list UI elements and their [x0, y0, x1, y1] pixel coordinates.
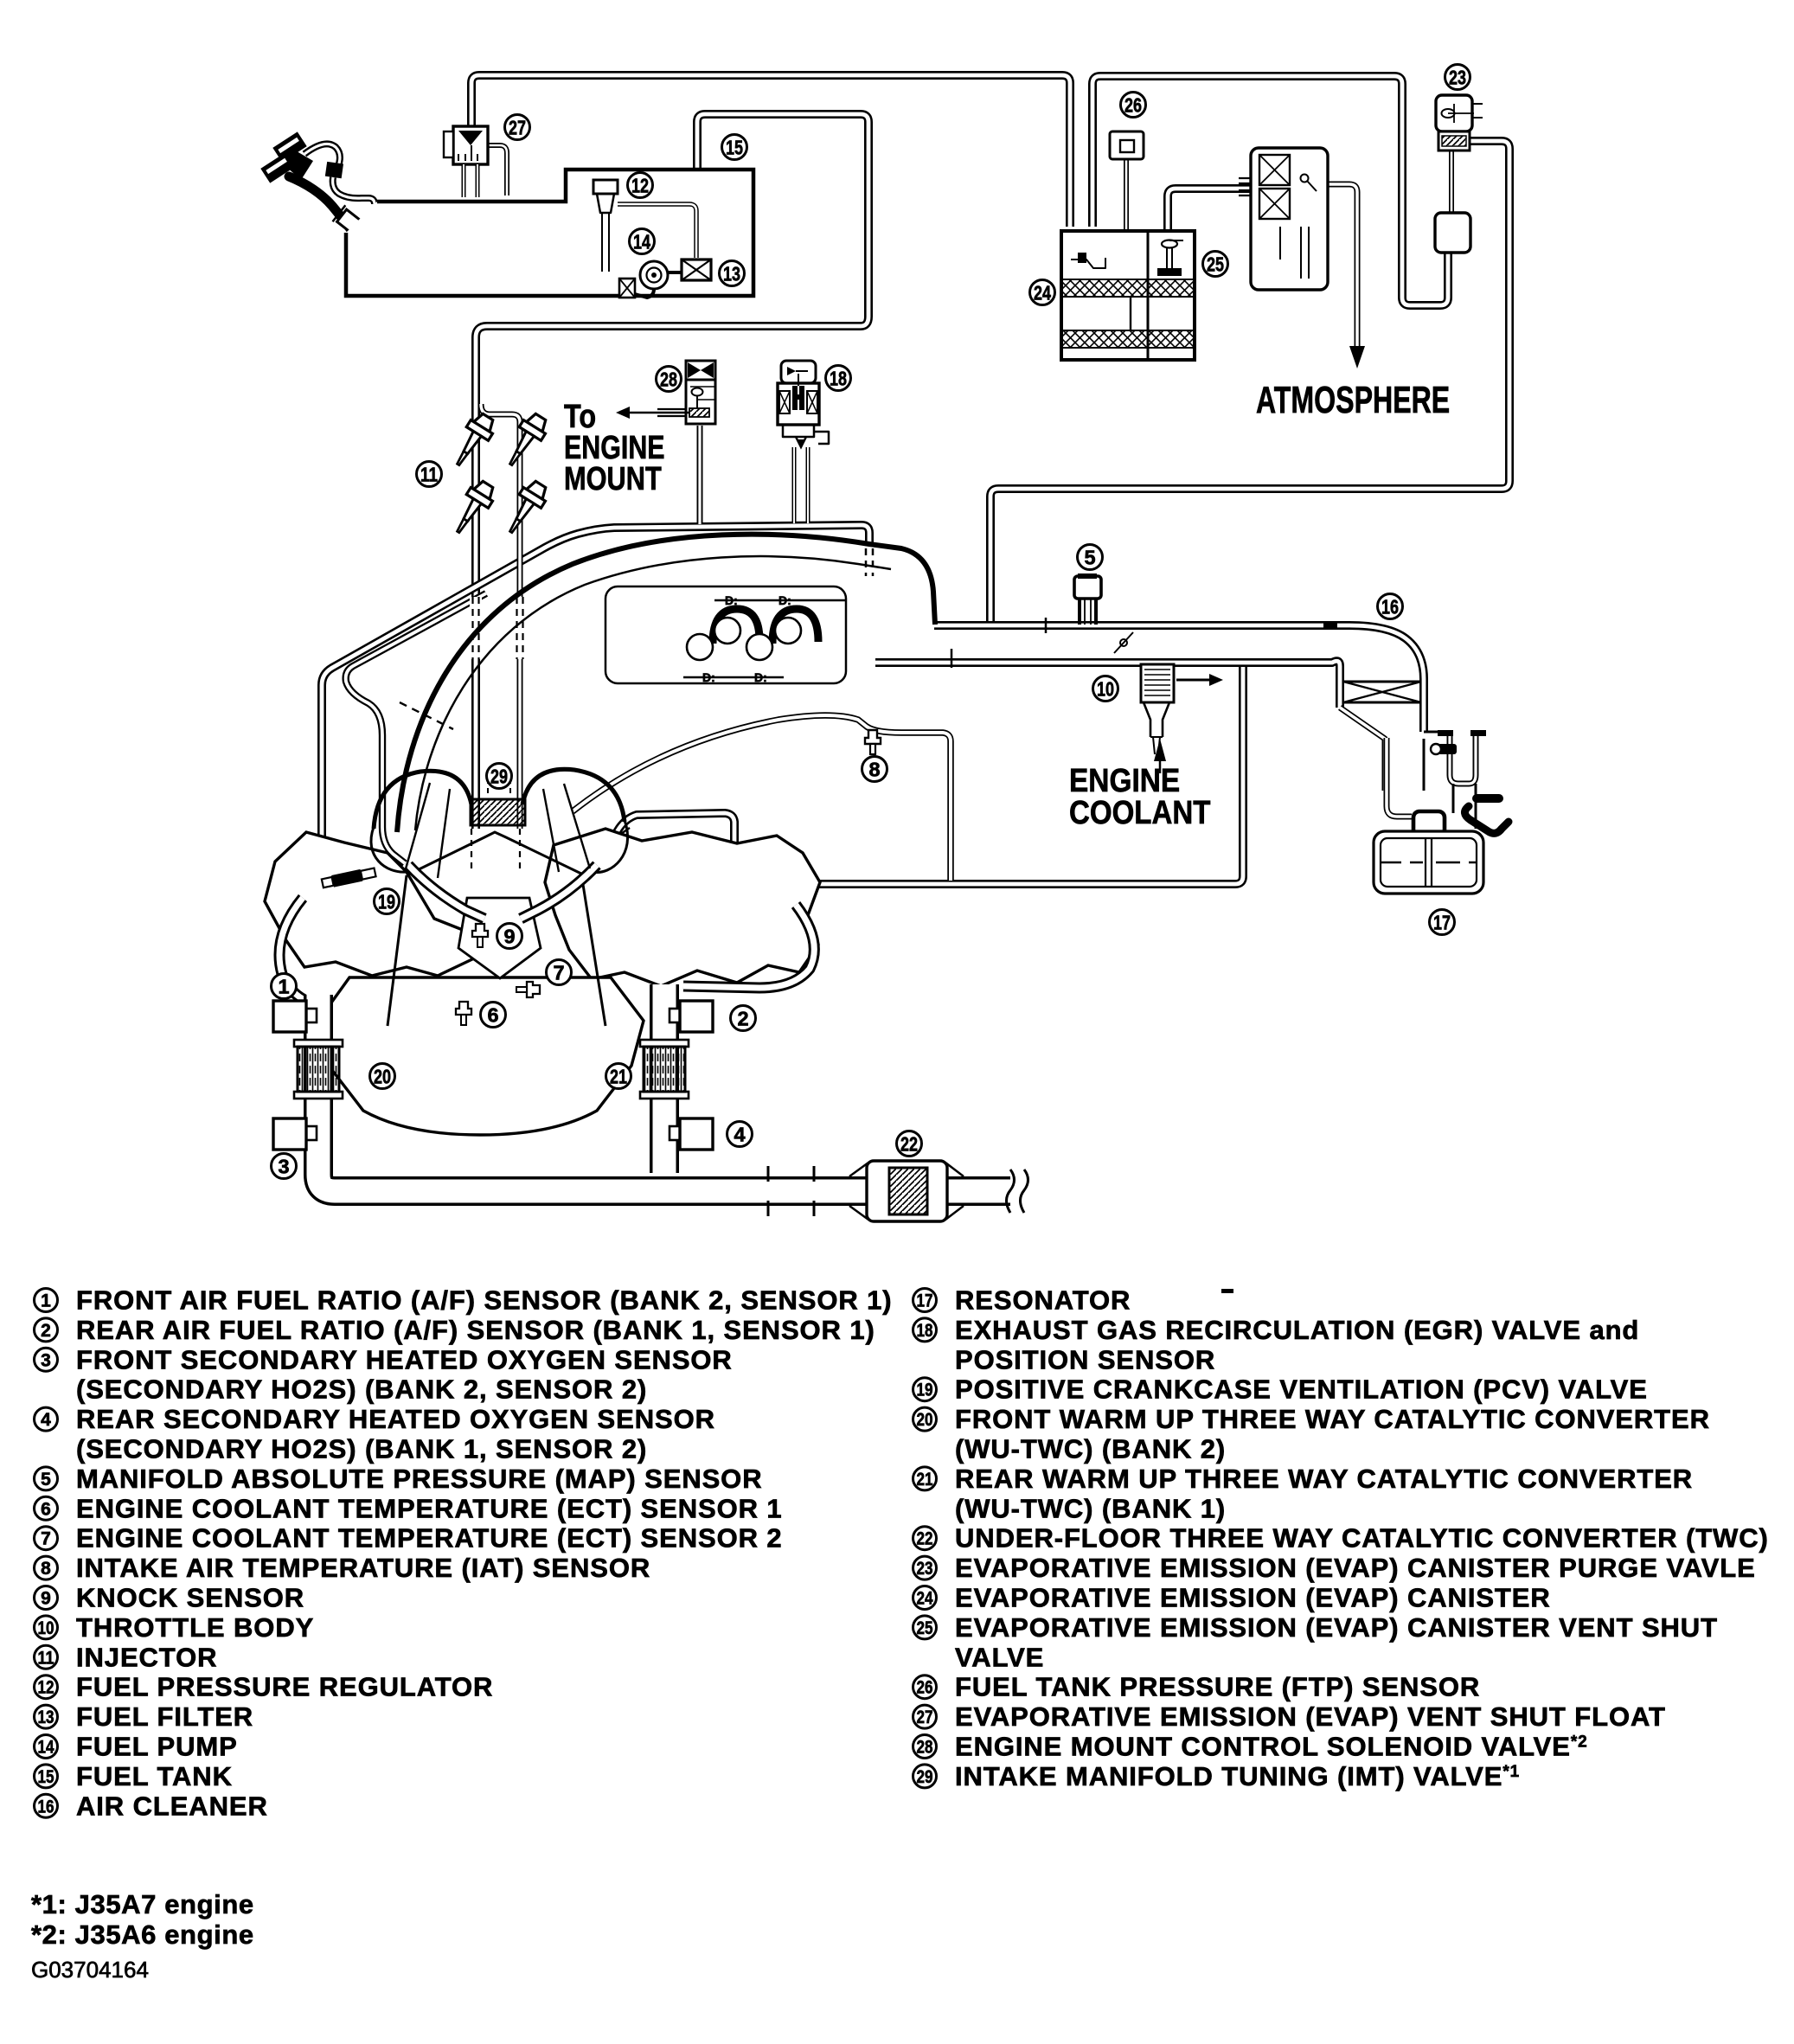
svg-text:7: 7: [41, 1529, 51, 1549]
legend circle 5: [35, 1467, 58, 1490]
svg-text:INJECTOR: INJECTOR: [76, 1642, 217, 1672]
legend circle 8: [35, 1556, 58, 1579]
exhaust left downpipe and main pipe: [318, 995, 1010, 1191]
hose: PCV valve to manifold: [346, 593, 486, 863]
under floor TWC 22: [849, 1163, 964, 1220]
legend circle 9: [35, 1586, 58, 1610]
air cleaner funnel left wall: [1340, 708, 1385, 791]
svg-text:11: 11: [420, 463, 438, 485]
callout 17: [1430, 910, 1455, 935]
svg-text:FRONT AIR FUEL RATIO (A/F) SEN: FRONT AIR FUEL RATIO (A/F) SENSOR (BANK …: [76, 1285, 893, 1316]
svg-text:D:: D:: [725, 593, 738, 607]
svg-text:24: 24: [917, 1589, 933, 1609]
svg-text:POSITIVE CRANKCASE VENTILATION: POSITIVE CRANKCASE VENTILATION (PCV) VAL…: [955, 1374, 1648, 1405]
runner mouth circles: [687, 634, 713, 660]
runner cluster outline: [605, 586, 846, 683]
callout 7: [547, 960, 572, 985]
svg-text:EVAPORATIVE EMISSION (EVAP) CA: EVAPORATIVE EMISSION (EVAP) CANISTER PUR…: [955, 1553, 1756, 1583]
svg-text:26: 26: [1124, 93, 1142, 116]
svg-text:D:: D:: [754, 670, 767, 684]
svg-text:16: 16: [1381, 595, 1399, 618]
IMT valve 29: [471, 799, 525, 825]
svg-text:EVAPORATIVE EMISSION (EVAP) CA: EVAPORATIVE EMISSION (EVAP) CANISTER VEN…: [955, 1612, 1718, 1643]
svg-text:MANIFOLD ABSOLUTE PRESSURE (MA: MANIFOLD ABSOLUTE PRESSURE (MAP) SENSOR: [76, 1464, 762, 1494]
svg-text:FUEL TANK: FUEL TANK: [76, 1761, 233, 1791]
resonator top port: [1413, 811, 1445, 836]
svg-text:*2: J35A6 engine: *2: J35A6 engine: [31, 1919, 254, 1950]
float valve right stub to tank: [476, 164, 480, 197]
callout 16: [1378, 594, 1403, 619]
callout 24: [1030, 280, 1055, 305]
svg-text:G03704164: G03704164: [31, 1957, 149, 1983]
svg-text:13: 13: [723, 262, 740, 285]
resonator 17 body: [1374, 831, 1483, 894]
legend circle 2: [35, 1318, 58, 1342]
EVAP canister 24: [1061, 231, 1195, 360]
secondary HO2S 3 box: [306, 1126, 317, 1140]
svg-text:14: 14: [38, 1738, 54, 1758]
svg-text:29: 29: [490, 765, 508, 787]
atmosphere arrowhead: [1349, 346, 1365, 368]
intake manifold plenum inner sweep: [415, 556, 891, 830]
svg-text:21: 21: [917, 1470, 933, 1490]
filter box left stubs upper: [1239, 178, 1251, 183]
svg-text:*1: J35A7 engine: *1: J35A7 engine: [31, 1889, 254, 1919]
svg-text:13: 13: [38, 1708, 54, 1727]
svg-text:D:: D:: [702, 670, 715, 684]
hose: EGR/PCV pipe loop left side: [322, 525, 869, 941]
svg-text:9: 9: [41, 1589, 51, 1609]
fuel pressure regulator 12: [593, 180, 618, 194]
svg-text:22: 22: [917, 1529, 933, 1549]
callout 13: [720, 261, 745, 286]
svg-text:ATMOSPHERE: ATMOSPHERE: [1256, 379, 1450, 421]
svg-text:5: 5: [1084, 546, 1095, 568]
svg-text:D:: D:: [778, 593, 791, 607]
callout 10: [1093, 676, 1118, 702]
callout 27: [505, 115, 530, 140]
intake manifold plenum outer sweep: [397, 535, 935, 832]
svg-text:28: 28: [660, 368, 677, 390]
filter box left stubs lower: [1239, 190, 1251, 195]
svg-text:2: 2: [41, 1321, 51, 1341]
callout 29: [487, 764, 512, 789]
svg-text:(SECONDARY HO2S) (BANK 1, SENS: (SECONDARY HO2S) (BANK 1, SENSOR 2): [76, 1434, 647, 1464]
air cleaner right ledge to resonator cup: [1424, 731, 1446, 734]
pump to filter link: [668, 271, 682, 274]
fuel tank 15: [346, 170, 753, 296]
warm up converter 20: [294, 1040, 343, 1047]
svg-text:19: 19: [917, 1381, 933, 1400]
svg-text:6: 6: [487, 1003, 498, 1026]
secondary HO2S 4 box: [670, 1126, 680, 1140]
resonator mounting hook: [1477, 794, 1499, 803]
EVAP vent shut float 27: [453, 126, 488, 164]
resonator body divider: [1425, 838, 1426, 887]
legend circle 10: [35, 1616, 58, 1639]
legend circle 18: [913, 1318, 937, 1342]
legend circle 15: [35, 1765, 58, 1788]
runner lines under plenum: [405, 783, 430, 872]
svg-text:20: 20: [917, 1410, 933, 1430]
svg-text:(WU-TWC) (BANK 2): (WU-TWC) (BANK 2): [955, 1434, 1226, 1464]
small nub on duct: [1323, 621, 1337, 629]
A/F sensor 1 box: [306, 1009, 317, 1022]
svg-text:THROTTLE BODY: THROTTLE BODY: [76, 1612, 314, 1643]
svg-text:27: 27: [917, 1708, 933, 1727]
callout 25: [1203, 252, 1228, 277]
stray mark: [1221, 1289, 1233, 1293]
resonator dashed midline: [1381, 862, 1477, 863]
hose clamp tick b: [625, 839, 639, 849]
throttle linkage: [1120, 639, 1127, 646]
callout 22: [897, 1131, 922, 1157]
callout 3: [272, 1154, 297, 1179]
svg-text:7: 7: [553, 961, 564, 984]
pigtail lower thick hose: [289, 176, 351, 230]
svg-text:25: 25: [1207, 253, 1224, 275]
label To: [564, 399, 596, 435]
svg-text:11: 11: [38, 1648, 54, 1668]
legend circle 27: [913, 1705, 937, 1728]
svg-text:(WU-TWC) (BANK 1): (WU-TWC) (BANK 1): [955, 1493, 1226, 1523]
legend circle 12: [35, 1676, 58, 1699]
legend circle 13: [35, 1705, 58, 1728]
callout 21: [606, 1064, 631, 1089]
callout 2: [731, 1006, 756, 1031]
intake runner tube right: [521, 865, 597, 919]
EGR valve right drop: [806, 447, 811, 523]
throttle body 10: [1141, 664, 1174, 702]
resonator cup side stub: [1438, 744, 1457, 754]
hose: canister 24 to vent filter box: [1168, 189, 1251, 229]
svg-text:POSITION SENSOR: POSITION SENSOR: [955, 1344, 1215, 1374]
svg-text:REAR WARM UP THREE WAY CATALYT: REAR WARM UP THREE WAY CATALYTIC CONVERT…: [955, 1464, 1693, 1494]
fuel hose regulator to filter: [618, 204, 696, 258]
callout 8: [862, 757, 887, 782]
callout 15: [722, 135, 747, 160]
fuel pump strainer box: [619, 279, 635, 298]
svg-text:1: 1: [41, 1291, 51, 1311]
svg-text:12: 12: [38, 1678, 54, 1698]
valve 28 drop line: [697, 426, 703, 524]
svg-text:KNOCK SENSOR: KNOCK SENSOR: [76, 1583, 304, 1613]
rails hidden behind plenum: dashed: [470, 597, 482, 659]
intake duct upper wall / air cleaner top: [934, 625, 1424, 732]
svg-text:MOUNT: MOUNT: [564, 461, 662, 497]
ECT sensor 1 glyph (6): [456, 1002, 471, 1025]
label COOLANT: [1069, 794, 1211, 831]
callout 1: [272, 974, 297, 999]
engine left valve cover (PCV area) 19: [265, 832, 474, 976]
label ENGINE (mount): [564, 430, 665, 466]
svg-text:5: 5: [41, 1470, 51, 1490]
hose: canister 24 to EVAP purge valve 23: [1092, 76, 1448, 305]
air cleaner 16 filter element: [1343, 681, 1421, 683]
svg-text:FUEL FILTER: FUEL FILTER: [76, 1701, 253, 1732]
engine coolant arrow: [1154, 739, 1166, 761]
exhaust pipe break squiggle: [1007, 1169, 1015, 1213]
svg-text:12: 12: [631, 174, 649, 196]
callout 18: [826, 366, 851, 391]
legend circle 21: [913, 1467, 937, 1490]
fuel filler pigtail connector A: [272, 131, 306, 162]
label ENGINE (coolant): [1069, 762, 1180, 798]
tick on duct: [1045, 618, 1048, 633]
hose: canister fresh-air line from EVAP vent shut float 27 to canister 24: [471, 75, 1070, 227]
canister float detail: [1071, 258, 1105, 268]
engine V interior: [407, 832, 581, 875]
svg-text:8: 8: [41, 1559, 51, 1579]
lower runner line: [683, 676, 784, 679]
valve 28 left port lines: [657, 409, 686, 416]
legend circle 4: [35, 1407, 58, 1431]
svg-text:FUEL PRESSURE REGULATOR: FUEL PRESSURE REGULATOR: [76, 1672, 493, 1702]
svg-text:14: 14: [633, 230, 650, 253]
legend circle 24: [913, 1586, 937, 1610]
svg-text:20: 20: [374, 1065, 391, 1087]
svg-text:FRONT WARM UP THREE WAY CATALY: FRONT WARM UP THREE WAY CATALYTIC CONVER…: [955, 1404, 1710, 1434]
legend circle 6: [35, 1496, 58, 1520]
svg-text:REAR AIR FUEL RATIO (A/F) SENS: REAR AIR FUEL RATIO (A/F) SENSOR (BANK 1…: [76, 1315, 875, 1345]
svg-text:23: 23: [1449, 66, 1466, 88]
callout 26: [1121, 93, 1146, 118]
svg-text:10: 10: [1097, 677, 1114, 700]
svg-text:ENGINE MOUNT CONTROL SOLENOID: ENGINE MOUNT CONTROL SOLENOID VALVE*2: [955, 1732, 1588, 1762]
svg-text:INTAKE MANIFOLD TUNING (IMT) V: INTAKE MANIFOLD TUNING (IMT) VALVE*1: [955, 1761, 1520, 1791]
ECT sensor 2 glyph (7): [516, 982, 540, 997]
svg-text:(SECONDARY HO2S) (BANK 2, SENS: (SECONDARY HO2S) (BANK 2, SENSOR 2): [76, 1374, 647, 1405]
hidden hose dashes behind plenum: [400, 702, 453, 729]
svg-text:ENGINE COOLANT TEMPERATURE (EC: ENGINE COOLANT TEMPERATURE (ECT) SENSOR …: [76, 1523, 783, 1554]
legend circle 3: [35, 1348, 58, 1371]
svg-text:15: 15: [38, 1767, 54, 1787]
legend circle 14: [35, 1735, 58, 1759]
legend circle 25: [913, 1616, 937, 1639]
svg-text:4: 4: [734, 1123, 745, 1145]
svg-text:18: 18: [917, 1321, 933, 1341]
legend circle 19: [913, 1378, 937, 1401]
svg-text:2: 2: [737, 1007, 748, 1029]
svg-text:26: 26: [917, 1678, 933, 1698]
fuel filter 13: [682, 260, 711, 280]
callout 6: [481, 1003, 506, 1028]
knock sensor 9: [472, 924, 488, 947]
svg-text:INTAKE AIR TEMPERATURE (IAT) S: INTAKE AIR TEMPERATURE (IAT) SENSOR: [76, 1553, 650, 1583]
hose: intake air duct lower loop under engine to air cleaner: [609, 666, 1243, 884]
EVAP canister purge valve 23: [1436, 95, 1472, 131]
tube: FTP sensor 26 to canister: [1124, 159, 1129, 229]
legend circle 29: [913, 1765, 937, 1788]
engine block: [318, 977, 644, 1135]
legend circle 22: [913, 1527, 937, 1550]
hose: purge valve 23 to intake manifold: [990, 141, 1509, 625]
injector glyphs 11: [447, 410, 552, 539]
engine right valve cover: [545, 829, 820, 986]
svg-text:RESONATOR: RESONATOR: [955, 1285, 1131, 1316]
stub: float valve 27 right port to tank: [489, 145, 507, 195]
svg-text:9: 9: [503, 925, 515, 947]
resonator 17 inlet cup: [1450, 735, 1476, 784]
svg-text:22: 22: [900, 1132, 918, 1155]
svg-text:EVAPORATIVE EMISSION (EVAP) VE: EVAPORATIVE EMISSION (EVAP) VENT SHUT FL…: [955, 1701, 1666, 1732]
upper runner line: [714, 599, 846, 602]
callout 20: [370, 1064, 395, 1089]
warm up converter 21: [640, 1040, 689, 1047]
legend circle 20: [913, 1407, 937, 1431]
fuel filler neck fitting: [333, 205, 385, 253]
svg-text:AIR CLEANER: AIR CLEANER: [76, 1791, 268, 1821]
svg-text:UNDER-FLOOR THREE WAY CATALYTI: UNDER-FLOOR THREE WAY CATALYTIC CONVERTE…: [955, 1523, 1769, 1554]
EGR valve left drop: [792, 447, 797, 523]
intake runner tube left: [408, 865, 484, 919]
svg-text:24: 24: [1034, 281, 1051, 304]
legend circle 11: [35, 1645, 58, 1669]
canister vent shut valve 25: [1162, 240, 1177, 248]
fuel line right rail branch: [481, 404, 520, 829]
EVAP vent filter box: [1251, 148, 1328, 290]
callout 9: [497, 924, 522, 949]
svg-text:25: 25: [917, 1618, 933, 1638]
callout 14: [630, 229, 655, 254]
IAT sensor 8: [865, 730, 881, 754]
legend circle 28: [913, 1735, 937, 1759]
resonator tower walls to body: [1475, 784, 1477, 829]
arrow line to engine mount: [630, 412, 690, 414]
hose clamp tick a: [616, 828, 630, 837]
exhaust right downpipe: [650, 984, 679, 1173]
intake duct lower wall: [875, 661, 1340, 708]
MAP sensor 5: [1078, 597, 1081, 625]
svg-text:EVAPORATIVE EMISSION (EVAP) CA: EVAPORATIVE EMISSION (EVAP) CANISTER: [955, 1583, 1551, 1613]
svg-text:17: 17: [1433, 911, 1451, 933]
svg-text:REAR SECONDARY HEATED OXYGEN S: REAR SECONDARY HEATED OXYGEN SENSOR: [76, 1404, 715, 1434]
svg-text:27: 27: [509, 116, 526, 138]
svg-text:23: 23: [917, 1559, 933, 1579]
svg-text:16: 16: [38, 1797, 54, 1817]
callout 19: [375, 889, 400, 914]
label ATMOSPHERE: [1256, 379, 1450, 421]
legend circle 26: [913, 1676, 937, 1699]
hose: vent filter to atmosphere: [1329, 184, 1357, 348]
pigtail upper thin hose: [304, 144, 340, 166]
svg-text:28: 28: [917, 1738, 933, 1758]
left exhaust manifold runner: [279, 898, 308, 1002]
svg-text:15: 15: [726, 136, 743, 158]
legend circle 7: [35, 1527, 58, 1550]
float valve left stub to tank: [462, 164, 466, 197]
air cleaner lower chamber left wall: [1387, 738, 1412, 817]
plenum bottom lobes: [374, 771, 471, 829]
FTP sensor 26: [1110, 131, 1144, 159]
throttle bypass arrow line: [1176, 679, 1209, 682]
svg-text:3: 3: [41, 1350, 51, 1370]
exhaust flange ticks: [767, 1166, 770, 1216]
svg-text:10: 10: [38, 1618, 54, 1638]
fuel pump 14: [640, 261, 668, 289]
svg-text:4: 4: [41, 1410, 51, 1430]
callout 12: [628, 173, 653, 198]
pump inlet link: [635, 289, 654, 298]
svg-text:17: 17: [917, 1291, 933, 1311]
callout 28: [657, 367, 682, 392]
svg-text:8: 8: [868, 758, 880, 780]
hose: inline filter to purge valve 23: [1449, 149, 1454, 249]
legend circle 17: [913, 1289, 937, 1312]
svg-text:FRONT SECONDARY HEATED OXYGEN: FRONT SECONDARY HEATED OXYGEN SENSOR: [76, 1344, 733, 1374]
svg-text:COOLANT: COOLANT: [1069, 794, 1211, 831]
svg-text:6: 6: [41, 1499, 51, 1519]
PCV valve glyph 19: [321, 867, 376, 890]
svg-text:19: 19: [378, 890, 395, 913]
svg-text:FUEL PUMP: FUEL PUMP: [76, 1732, 238, 1762]
EGR pipe hidden segment dashed left: [865, 548, 868, 576]
air cleaner chamber right wall: [1423, 739, 1426, 791]
callout 5: [1078, 545, 1103, 570]
svg-text:VALVE: VALVE: [955, 1642, 1044, 1672]
svg-text:3: 3: [278, 1155, 289, 1177]
pigtail hub wedge: [285, 149, 313, 180]
knock sensor pocket: [458, 898, 541, 978]
svg-text:FUEL TANK PRESSURE (FTP) SENSO: FUEL TANK PRESSURE (FTP) SENSOR: [955, 1672, 1480, 1702]
svg-text:ENGINE COOLANT TEMPERATURE (EC: ENGINE COOLANT TEMPERATURE (ECT) SENSOR …: [76, 1493, 783, 1523]
legend circle 1: [35, 1289, 58, 1312]
svg-text:29: 29: [917, 1767, 933, 1787]
intake lower sweep tube from engine: [573, 715, 951, 881]
runner tubes thick arcs: [713, 609, 759, 644]
inline filter on purge line: [1435, 213, 1470, 253]
callout 11: [417, 462, 442, 487]
callout 23: [1445, 65, 1470, 90]
svg-text:21: 21: [610, 1065, 627, 1087]
callout 4: [727, 1122, 753, 1147]
EGR pipe hidden segment dashed right: [872, 548, 875, 576]
svg-text:1: 1: [278, 975, 289, 997]
svg-text:EXHAUST GAS RECIRCULATION (EGR: EXHAUST GAS RECIRCULATION (EGR) VALVE an…: [955, 1315, 1639, 1345]
legend circle 23: [913, 1556, 937, 1579]
hose: fuel tank vapor loop / left injector rail line: [476, 114, 868, 829]
legend circle 16: [35, 1794, 58, 1817]
fuel filler pigtail connector B: [260, 152, 294, 183]
label MOUNT: [564, 461, 662, 497]
right exhaust manifold runner: [683, 905, 814, 988]
A/F sensor 2 box: [670, 1009, 680, 1022]
svg-text:18: 18: [830, 367, 847, 389]
